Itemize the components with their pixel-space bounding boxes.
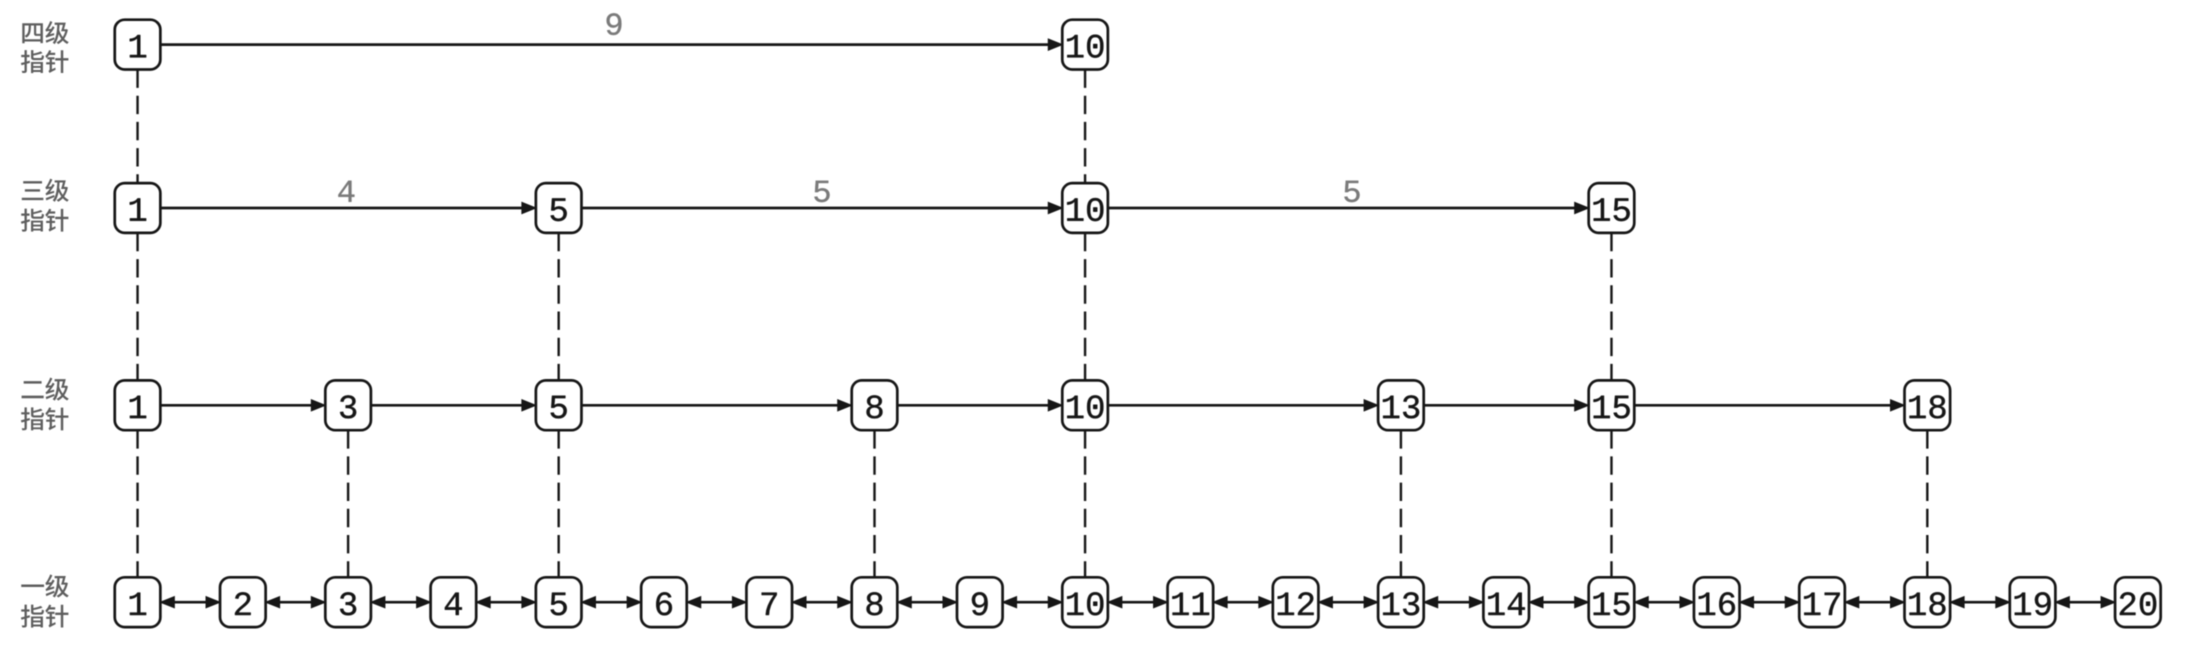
node level-1 value 20 [2115, 577, 2161, 627]
edge label 9 [607, 13, 622, 35]
arrow level-2: 13 to 15 [1424, 400, 1589, 411]
dashed link: node 10 level-4 to level-3 [1084, 70, 1086, 184]
node level-1 value 19 [2010, 577, 2056, 627]
node level-4 value 1 [115, 20, 161, 70]
double arrow level-1: 16 to 17 [1740, 597, 1800, 608]
dashed link: node 8 level-2 to level-1 [873, 430, 875, 577]
double arrow level-1: 19 to 20 [2055, 597, 2115, 608]
label 一级指针 (level-1 pointer row caption) [21, 574, 69, 627]
node level-2 value 13 [1378, 380, 1424, 430]
label 三级指针 (level-3 pointer row caption) [21, 179, 69, 232]
arrow level-2: 10 to 13 [1108, 400, 1378, 411]
double arrow level-1: 7 to 8 [792, 597, 852, 608]
node level-1 value 8 [852, 577, 898, 627]
double arrow level-1: 15 to 16 [1634, 597, 1694, 608]
double arrow level-1: 9 to 10 [1003, 597, 1063, 608]
node level-1 value 11 [1168, 577, 1214, 627]
double arrow level-1: 14 to 15 [1529, 597, 1589, 608]
node level-2 value 18 [1905, 380, 1951, 430]
node level-1 value 13 [1378, 577, 1424, 627]
arrow level-2: 15 to 18 [1634, 400, 1904, 411]
node level-4 value 10 [1062, 20, 1108, 70]
node level-3 value 1 [115, 183, 161, 233]
node level-1 value 18 [1905, 577, 1951, 627]
arrow level-4: 1 to 10 [160, 39, 1062, 50]
node level-1 value 12 [1273, 577, 1319, 627]
node level-1 value 1 [115, 577, 161, 627]
arrow level-3: 1 to 5 [160, 202, 536, 213]
dashed link: node 10 level-2 to level-1 [1084, 430, 1086, 577]
node level-3 value 15 [1589, 183, 1635, 233]
edge label 5 [1344, 181, 1359, 202]
node level-1 value 4 [431, 577, 477, 627]
arrow level-2: 1 to 3 [160, 400, 325, 411]
arrow level-2: 3 to 5 [371, 400, 536, 411]
edge label 5 [814, 181, 829, 202]
label 四级指针 (level-4 pointer row caption) [21, 21, 69, 73]
arrow level-3: 10 to 15 [1108, 202, 1589, 213]
node level-3 value 10 [1062, 183, 1108, 233]
double arrow level-1: 1 to 2 [160, 597, 220, 608]
node level-2 value 3 [325, 380, 371, 430]
double arrow level-1: 17 to 18 [1845, 597, 1905, 608]
double arrow level-1: 3 to 4 [371, 597, 431, 608]
dashed link: node 1 level-4 to level-3 [136, 70, 138, 184]
node level-1 value 9 [957, 577, 1003, 627]
double arrow level-1: 10 to 11 [1108, 597, 1168, 608]
node level-2 value 15 [1589, 380, 1635, 430]
node level-1 value 17 [1799, 577, 1845, 627]
dashed link: node 10 level-3 to level-2 [1084, 233, 1086, 381]
dashed link: node 1 level-3 to level-2 [136, 233, 138, 381]
node level-3 value 5 [536, 183, 582, 233]
node level-1 value 16 [1694, 577, 1740, 627]
dashed link: node 5 level-3 to level-2 [557, 233, 559, 381]
dashed link: node 15 level-2 to level-1 [1610, 430, 1612, 577]
arrow level-2: 8 to 10 [897, 400, 1062, 411]
double arrow level-1: 11 to 12 [1213, 597, 1273, 608]
dashed link: node 5 level-2 to level-1 [557, 430, 559, 577]
double arrow level-1: 13 to 14 [1424, 597, 1484, 608]
double arrow level-1: 8 to 9 [897, 597, 957, 608]
arrow level-2: 5 to 8 [581, 400, 851, 411]
double arrow level-1: 4 to 5 [476, 597, 536, 608]
double arrow level-1: 12 to 13 [1318, 597, 1378, 608]
node level-2 value 8 [852, 380, 898, 430]
dashed link: node 3 level-2 to level-1 [347, 430, 349, 577]
node level-2 value 1 [115, 380, 161, 430]
node level-1 value 14 [1483, 577, 1529, 627]
label 二级指针 (level-2 pointer row caption) [21, 377, 69, 430]
node level-1 value 7 [746, 577, 792, 627]
double arrow level-1: 6 to 7 [687, 597, 747, 608]
dashed link: node 18 level-2 to level-1 [1926, 430, 1928, 577]
node level-2 value 5 [536, 380, 582, 430]
arrow level-3: 5 to 10 [581, 202, 1062, 213]
node level-1 value 5 [536, 577, 582, 627]
dashed link: node 13 level-2 to level-1 [1400, 430, 1402, 577]
node level-1 value 2 [220, 577, 266, 627]
double arrow level-1: 5 to 6 [581, 597, 641, 608]
node level-1 value 10 [1062, 577, 1108, 627]
node level-2 value 10 [1062, 380, 1108, 430]
double arrow level-1: 2 to 3 [266, 597, 326, 608]
node level-1 value 15 [1589, 577, 1635, 627]
edge label 4 [338, 181, 354, 202]
node level-1 value 6 [641, 577, 687, 627]
dashed link: node 15 level-3 to level-2 [1610, 233, 1612, 381]
node level-1 value 3 [325, 577, 371, 627]
double arrow level-1: 18 to 19 [1950, 597, 2010, 608]
dashed link: node 1 level-2 to level-1 [136, 430, 138, 577]
